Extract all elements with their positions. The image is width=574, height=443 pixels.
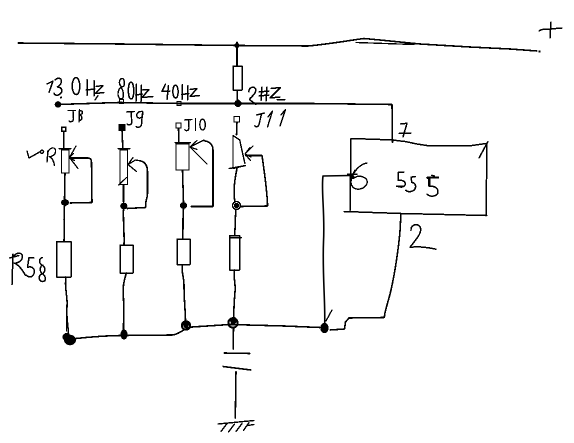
potentiometer J11 (slanted body) bbox=[229, 136, 245, 169]
capacitor C1 bottom plate bbox=[223, 367, 251, 371]
wire resistor2 to bottom rail bbox=[123, 273, 126, 331]
potentiometer J9 bbox=[118, 149, 130, 203]
label 6 (pin) with X connection scribble bbox=[348, 163, 368, 189]
wire resistor R_top to mid bus bbox=[236, 90, 239, 100]
label 2 (pin) bbox=[410, 225, 436, 250]
label 80Hz bbox=[118, 78, 153, 102]
wiper arrow pot1 bbox=[70, 146, 79, 169]
label J9 bbox=[127, 111, 143, 127]
potentiometer VR/J8 bbox=[59, 149, 71, 200]
node bottom rail junction 1 bbox=[63, 333, 77, 345]
node pot4 bottom junction (ringed) bbox=[233, 202, 241, 210]
jumper pad J8 bbox=[62, 127, 66, 131]
wire resistor4 to bottom rail bbox=[234, 270, 236, 318]
capacitor C1 top plate bbox=[224, 352, 250, 355]
wire junction4 to capacitor bbox=[232, 327, 234, 349]
node bottom rail junction 5 bbox=[320, 323, 328, 333]
label 7 (pin) bbox=[399, 123, 411, 137]
wire pad to pot1 bbox=[63, 132, 65, 149]
node marker branch J10 on bus bbox=[177, 102, 181, 106]
node pot3 bottom junction bbox=[180, 202, 187, 209]
node left end of mid bus bbox=[55, 101, 62, 108]
wire from top rail to resistor R_top bbox=[236, 48, 238, 66]
wire mid horizontal bus bbox=[57, 103, 392, 105]
wiper arrow pot4 bbox=[245, 146, 253, 161]
wire 555 pin 2 stub bbox=[400, 214, 401, 232]
jumper pad J9 bbox=[119, 125, 125, 131]
wire junction to resistor2 bbox=[122, 210, 125, 246]
ground symbol bbox=[218, 421, 254, 433]
resistor 2 body bbox=[120, 245, 133, 273]
wiper arrow pot3 bbox=[190, 140, 207, 164]
wire bottom ground rail bbox=[76, 325, 320, 339]
label 555 bbox=[397, 172, 438, 196]
label 2HZ bbox=[249, 87, 285, 105]
wire tick above junction 5 bbox=[326, 310, 332, 321]
wire wiper loop pot1 bbox=[70, 158, 92, 203]
wire junction to resistor4 bbox=[235, 210, 237, 237]
label J11 bbox=[255, 110, 286, 128]
node bottom rail junction 2 bbox=[120, 330, 127, 340]
node marker branch J9 on bus bbox=[120, 100, 124, 104]
resistor 3 body bbox=[177, 239, 190, 265]
node + (positive supply label) bbox=[539, 22, 562, 38]
wire 555 pin 6 to bottom rail bbox=[322, 176, 350, 324]
wire 555 pin 2 to bottom rail bbox=[330, 231, 400, 330]
node pot2 bottom junction bbox=[120, 203, 127, 210]
jumper pad J11 bbox=[234, 117, 240, 123]
wire top supply rail bbox=[18, 39, 541, 53]
wire wiper loop pot2 bbox=[127, 161, 148, 209]
node bottom rail junction 3 (ringed) bbox=[182, 321, 190, 330]
resistor R_top bbox=[233, 66, 242, 90]
label 40Hz bbox=[162, 84, 200, 100]
wire wiper loop pot4 bbox=[241, 156, 268, 207]
resistor R58 body bbox=[57, 242, 72, 278]
label 13.0Hz bbox=[47, 78, 104, 101]
wire pad to pot3 bbox=[178, 128, 180, 142]
wire pot4 bottom to junction bbox=[234, 169, 237, 203]
wire junction to R58 bbox=[63, 206, 66, 241]
label J8 bbox=[68, 110, 82, 123]
label J10 bbox=[185, 119, 206, 131]
wire pad to pot4 bbox=[236, 123, 239, 136]
wire resistor1 to bottom rail bbox=[65, 277, 68, 335]
wire junction to resistor3 bbox=[183, 209, 184, 240]
node pot1 bottom junction bbox=[61, 199, 69, 206]
resistor 4 body bbox=[230, 236, 240, 270]
wire capacitor to ground bbox=[234, 372, 237, 419]
label VR bbox=[27, 148, 56, 166]
node junction on top rail bbox=[234, 42, 239, 49]
wire wiper loop pot3 bbox=[191, 141, 213, 207]
jumper pad J10 bbox=[176, 123, 181, 128]
wire resistor3 to bottom rail bbox=[182, 265, 185, 321]
op-amp/timer U1 555 box bbox=[344, 139, 488, 217]
wire mid bus to 555 pin 7 bbox=[391, 105, 394, 143]
node bottom rail junction 4 (ringed) bbox=[228, 317, 237, 328]
label R58 bbox=[10, 253, 46, 284]
wiper arrow pot2 bbox=[128, 158, 141, 172]
potentiometer J10 bbox=[175, 143, 191, 203]
node junction mid bus / branch 4 bbox=[234, 100, 241, 107]
wire pad to pot2 bbox=[121, 131, 124, 148]
